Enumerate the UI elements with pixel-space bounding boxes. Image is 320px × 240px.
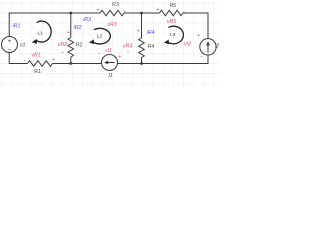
svg-text:vR2: vR2 (58, 42, 67, 48)
svg-text:R4: R4 (148, 44, 155, 50)
svg-text:R1: R1 (34, 69, 41, 75)
svg-text:-: - (24, 58, 26, 64)
wire: R2 branch bottom lead (70, 57, 72, 64)
resistor R5 (160, 10, 184, 16)
svg-text:vR4: vR4 (123, 43, 132, 49)
svg-text:+: + (197, 33, 201, 39)
resistor R4 (139, 38, 145, 58)
svg-text:iR2: iR2 (74, 25, 82, 31)
wire: bottom right from I1 to right vertical up to I2 (118, 55, 209, 63)
mesh loop L2 (89, 28, 110, 44)
svg-text:iR4: iR4 (147, 30, 155, 36)
svg-text:L2: L2 (97, 33, 103, 39)
mesh loop L3 (164, 26, 184, 44)
svg-text:-: - (127, 50, 129, 56)
svg-text:L1: L1 (38, 30, 44, 36)
wire: bottom middle between R1 and I1 (53, 63, 102, 65)
node junction bottom-right (140, 62, 143, 65)
background grid (0, 0, 220, 87)
wire: left vertical + top-left corner to R3 (9, 13, 100, 37)
current source I1 (102, 55, 118, 71)
wire: R2 branch top lead (70, 13, 72, 38)
svg-text:vI2: vI2 (184, 41, 191, 47)
svg-text:-: - (62, 50, 64, 56)
svg-text:v1: v1 (20, 42, 26, 48)
svg-text:+: + (118, 54, 122, 60)
svg-text:vR3: vR3 (107, 22, 116, 28)
svg-text:R5: R5 (169, 3, 176, 9)
svg-text:vI1: vI1 (105, 48, 112, 54)
wire: top right + right vertical down to I2 (183, 13, 208, 39)
node junction bottom-left (69, 62, 72, 65)
svg-text:R2: R2 (76, 42, 83, 48)
svg-text:-: - (124, 9, 126, 15)
resistor R2 (68, 38, 74, 58)
svg-text:R3: R3 (112, 2, 119, 8)
svg-text:-: - (98, 51, 100, 57)
current source I2 (200, 39, 216, 55)
node junction top-left (69, 12, 72, 15)
svg-text:iR1: iR1 (13, 24, 21, 30)
svg-text:+: + (8, 39, 12, 45)
resistor R3 (100, 10, 124, 16)
svg-text:−: − (7, 47, 11, 54)
svg-text:I1: I1 (108, 73, 112, 79)
svg-text:vR1: vR1 (31, 52, 40, 58)
wire: R4 branch top lead (141, 13, 143, 38)
resistor R1 (28, 61, 53, 67)
svg-text:iR3: iR3 (83, 17, 91, 23)
svg-text:-: - (183, 10, 185, 16)
wire: R4 branch bottom lead (141, 58, 143, 64)
node junction top-right (140, 12, 143, 15)
svg-text:vR5: vR5 (167, 19, 176, 25)
wire: top middle between R3 and R5 (124, 12, 160, 14)
svg-text:-: - (200, 54, 202, 60)
mesh loop L1 (32, 21, 51, 44)
svg-text:I2: I2 (215, 44, 219, 50)
voltage source V1 (2, 37, 18, 54)
svg-text:L3: L3 (170, 32, 176, 38)
wire: left bottom stub + bottom wire to R1 (9, 53, 27, 64)
